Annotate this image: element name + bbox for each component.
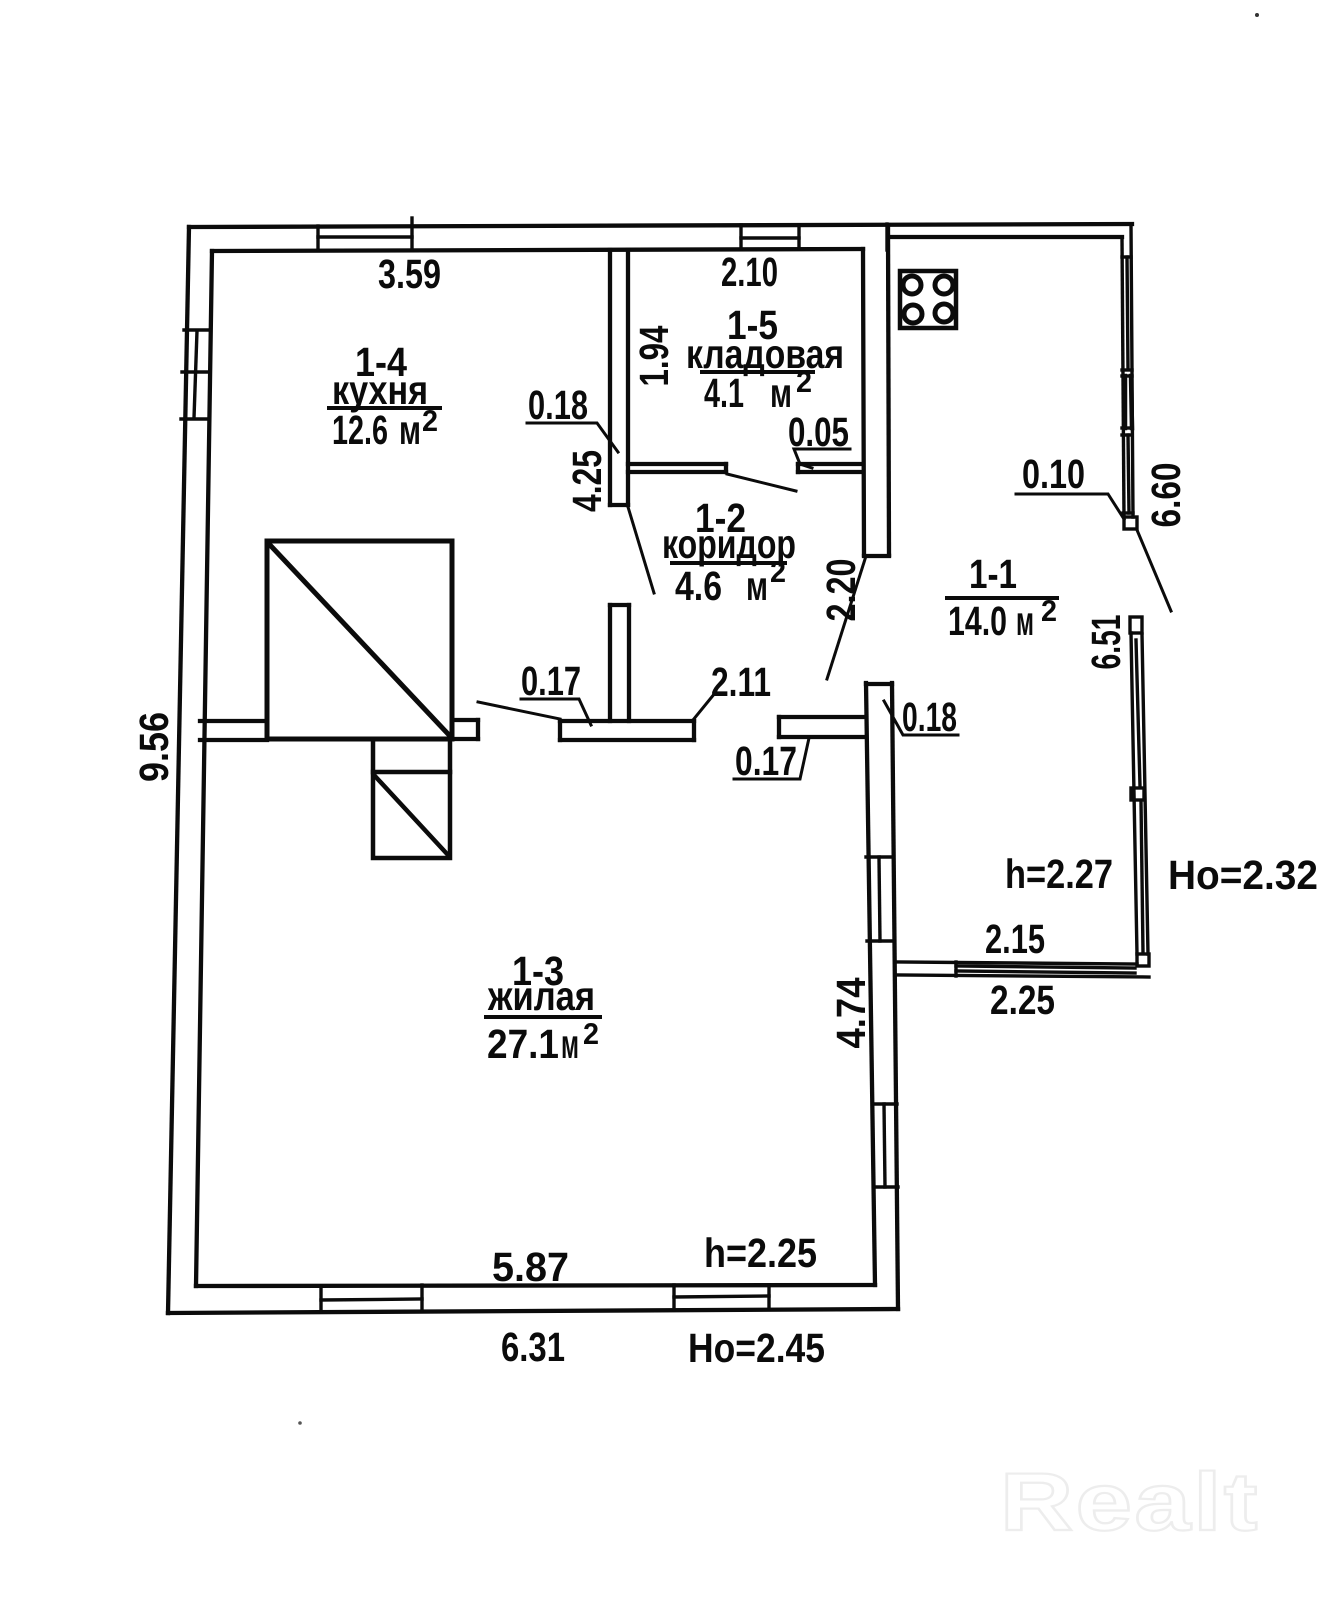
svg-text:0.18: 0.18 <box>528 382 588 428</box>
storage bottom wall bottom line <box>628 470 726 474</box>
window right-2 bottom jamb <box>874 1185 898 1188</box>
partition D bottom line <box>779 735 866 739</box>
svg-text:1-1: 1-1 <box>969 551 1017 597</box>
veranda right wall outer line <box>1131 225 1133 517</box>
window right-2 glazing line <box>884 1104 885 1187</box>
wall kitchen/storage right line <box>626 250 630 505</box>
svg-text:0.17: 0.17 <box>521 658 581 704</box>
svg-text:2: 2 <box>583 1018 599 1051</box>
svg-text:2.20: 2.20 <box>818 559 864 622</box>
svg-text:h=2.25: h=2.25 <box>704 1230 817 1276</box>
svg-text:2: 2 <box>770 556 786 589</box>
veranda bottom wall top line <box>896 962 1137 964</box>
wall stub top cap <box>610 603 629 607</box>
storage bottom wall right piece cap <box>796 464 800 472</box>
veranda bottom wall glazing line 2 <box>956 971 1135 973</box>
wall interior thick wall 1-5/1-1 left line <box>863 249 864 555</box>
svg-text:2.25: 2.25 <box>990 977 1055 1023</box>
window bottom-1 left jamb <box>319 1286 322 1312</box>
partition A top line <box>200 719 267 723</box>
wall right stub top cap <box>866 682 892 686</box>
veranda lower wall glazing lower <box>1141 802 1143 952</box>
storage bottom wall end cap <box>724 464 728 472</box>
window left jamb top <box>184 328 210 331</box>
window bottom-2 left jamb <box>672 1285 675 1310</box>
underline room name living <box>486 1015 600 1019</box>
svg-text:6.31: 6.31 <box>501 1324 565 1370</box>
veranda walls <box>896 225 1171 977</box>
partition B end cap <box>476 720 480 739</box>
storage bottom wall top line <box>628 462 726 466</box>
wall top inner wall line (veranda) <box>888 235 1122 239</box>
svg-text:2.11: 2.11 <box>711 659 771 705</box>
svg-text:12.6: 12.6 <box>332 407 388 453</box>
partition B top line <box>452 718 478 722</box>
wall left outer wall line <box>168 227 189 1313</box>
door leaf storage <box>727 474 796 491</box>
veranda right wall jamb <box>1122 433 1132 436</box>
veranda lower wall top cap box <box>1130 617 1142 633</box>
speck dot lower <box>298 1421 302 1425</box>
wall top outer wall line <box>189 224 1132 227</box>
partition C bottom line <box>560 738 694 742</box>
svg-text:2: 2 <box>796 366 812 399</box>
svg-text:2: 2 <box>422 405 438 438</box>
veranda right wall jamb <box>1122 374 1132 377</box>
wall stub above partition right line <box>627 605 631 721</box>
svg-text:6.60: 6.60 <box>1143 463 1189 528</box>
veranda bottom wall glazing line 1 <box>956 966 1135 968</box>
storage bottom wall right piece bottom line <box>798 470 863 474</box>
svg-text:Realt: Realt <box>1000 1457 1260 1548</box>
svg-text:0.10: 0.10 <box>1022 451 1085 497</box>
wall stub above partition left line <box>608 605 612 721</box>
wall bottom outer wall line <box>168 1309 898 1313</box>
svg-text:Но=2.45: Но=2.45 <box>688 1325 825 1371</box>
window bottom-2 right jamb <box>767 1285 770 1309</box>
svg-text:9.56: 9.56 <box>131 712 177 782</box>
partition A bottom line <box>200 738 267 742</box>
window right-1 glazing line <box>879 857 880 941</box>
svg-text:4.1: 4.1 <box>704 370 744 416</box>
partition D left cap <box>777 717 781 737</box>
wall top inner wall line (main house) <box>212 249 863 251</box>
svg-text:0.17: 0.17 <box>735 738 797 784</box>
wall interior thick wall 1-5/1-1 right line <box>888 225 889 555</box>
svg-text:6.51: 6.51 <box>1083 615 1129 670</box>
window bottom-1 glazing line <box>321 1299 422 1300</box>
veranda door end cap box <box>1124 517 1137 529</box>
svg-text:2.15: 2.15 <box>985 916 1045 962</box>
window left glazing line <box>194 331 197 418</box>
wall left inner wall line <box>196 251 212 1286</box>
svg-text:4.25: 4.25 <box>564 450 610 512</box>
svg-text:Но=2.32: Но=2.32 <box>1168 852 1318 898</box>
window top-1 left jamb <box>316 226 319 250</box>
veranda bottom corner box <box>1137 954 1149 966</box>
svg-text:2.10: 2.10 <box>721 249 778 295</box>
wall kitchen/storage left line <box>608 250 612 505</box>
veranda right wall inner line <box>1122 238 1124 517</box>
speck dot upper right <box>1255 13 1259 17</box>
underline room name corridor <box>672 561 785 565</box>
svg-text:0.05: 0.05 <box>788 409 849 455</box>
svg-text:м: м <box>561 1021 579 1067</box>
wall joint jamb at veranda <box>885 224 888 250</box>
leader 0.10 <box>1016 494 1124 519</box>
wall interior thick wall bottom cap <box>864 554 889 558</box>
svg-text:4.6: 4.6 <box>675 563 722 609</box>
wall right lower inner wall line <box>866 683 875 1285</box>
window left divider <box>182 370 208 373</box>
veranda lower wall glazing upper <box>1136 640 1140 786</box>
svg-text:0.18: 0.18 <box>902 694 957 740</box>
door leaf corridor to 1-1 <box>827 556 866 679</box>
svg-text:5.87: 5.87 <box>492 1244 569 1290</box>
svg-text:2: 2 <box>1041 595 1057 628</box>
storage bottom wall right piece top line <box>798 462 863 466</box>
partition C right cap <box>692 721 696 740</box>
leader 0.18 kitchen wall <box>527 423 618 452</box>
window top-2 right jamb <box>797 225 800 249</box>
svg-text:м: м <box>746 563 768 609</box>
leader 0.17 lower <box>734 738 809 779</box>
veranda right wall jamb <box>1122 255 1131 258</box>
window top-2 glazing line <box>741 236 799 239</box>
wall bottom inner wall line <box>196 1285 875 1286</box>
veranda lower wall outer line <box>1142 634 1148 954</box>
window bottom-2 glazing line <box>674 1296 769 1297</box>
veranda bottom wall window jamb <box>954 962 957 976</box>
leader 0.18 right stub <box>884 701 958 735</box>
watermark Realt <box>1000 1457 1260 1548</box>
veranda door leaf <box>1137 530 1171 611</box>
wall kitchen/storage bottom cap <box>610 503 628 507</box>
veranda right wall window glazing upper <box>1127 257 1128 369</box>
veranda lower wall inner line <box>1131 633 1137 954</box>
veranda right wall pier bar left <box>1123 376 1128 428</box>
leader 0.05 <box>794 449 850 468</box>
svg-text:3.59: 3.59 <box>378 251 441 297</box>
wall right lower outer wall line <box>892 683 898 1309</box>
svg-text:м: м <box>399 407 421 453</box>
veranda lower wall junction box <box>1131 788 1144 800</box>
leaders and dimension underlines <box>329 372 1124 1017</box>
leader 0.17 partition <box>521 699 591 725</box>
window right-1 top jamb <box>866 855 893 858</box>
svg-text:h=2.27: h=2.27 <box>1005 851 1113 897</box>
window top-2 left jamb <box>739 225 742 249</box>
partition C left cap <box>558 721 562 740</box>
veranda right wall jamb <box>1122 426 1132 429</box>
window right-2 top jamb <box>873 1102 897 1105</box>
partition B bottom line <box>452 737 478 741</box>
underline room name storage <box>702 370 813 374</box>
door leaf kitchen-corridor <box>628 507 654 593</box>
window right-1 bottom jamb <box>867 939 894 942</box>
door leaf partition opening <box>478 702 560 719</box>
veranda right wall pier bar right <box>1131 376 1132 428</box>
svg-text:м: м <box>1016 598 1034 644</box>
stove lower block with diagonal <box>373 739 450 858</box>
partition C top line <box>560 719 694 723</box>
underline room 1-1 <box>947 596 1057 600</box>
veranda right wall jamb <box>1122 368 1132 371</box>
stove in room 1-1 (square with 4 burners) <box>900 271 956 328</box>
svg-text:27.1: 27.1 <box>487 1021 559 1067</box>
svg-text:4.74: 4.74 <box>828 977 874 1048</box>
window top-1 glazing line <box>318 235 412 238</box>
partition D top line <box>779 715 866 719</box>
underline room name kitchen <box>329 406 440 410</box>
window left jamb bottom <box>181 417 206 420</box>
svg-text:жилая: жилая <box>487 973 595 1019</box>
veranda right wall jamb <box>1123 511 1133 514</box>
svg-text:14.0: 14.0 <box>948 598 1007 644</box>
veranda right wall window glazing lower <box>1128 435 1129 513</box>
svg-text:1.94: 1.94 <box>631 325 677 386</box>
leader 2.11 <box>693 693 715 720</box>
window bottom-1 right jamb <box>420 1285 423 1311</box>
stove in kitchen (big square with diagonal) <box>267 541 452 739</box>
window top-1 right jamb <box>410 218 413 250</box>
veranda bottom wall bottom line <box>896 975 1149 977</box>
